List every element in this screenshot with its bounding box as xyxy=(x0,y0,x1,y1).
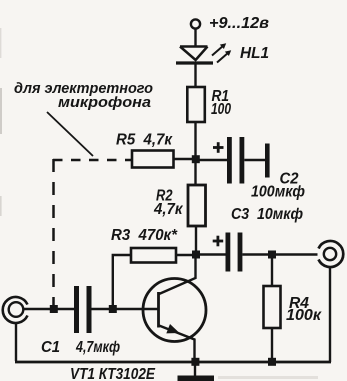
ground symbol xyxy=(194,362,196,376)
transistor VT1 emitter arrow xyxy=(166,324,179,333)
capacitor C2 xyxy=(227,137,232,184)
svg-text:4,7мкф: 4,7мкф xyxy=(75,339,120,356)
wire R3 to node B xyxy=(176,254,192,256)
svg-text:100к: 100к xyxy=(286,307,322,324)
dashed wire to electret mic (horizontal) xyxy=(53,159,132,162)
svg-text:100: 100 xyxy=(211,101,231,118)
wire C3 to output xyxy=(242,253,317,255)
capacitor C3 plus sign xyxy=(213,236,224,247)
svg-text:VT1 КТ3102Е: VT1 КТ3102Е xyxy=(70,366,156,381)
resistor R5 xyxy=(132,151,174,168)
transistor VT1 collector xyxy=(159,255,196,295)
svg-text:100мкф: 100мкф xyxy=(251,184,305,201)
svg-text:C1: C1 xyxy=(41,339,60,356)
svg-text:C3 10мкф: C3 10мкф xyxy=(231,206,303,223)
capacitor C3 xyxy=(226,233,231,272)
node emitter-rail junction xyxy=(191,358,199,366)
svg-text:HL1: HL1 xyxy=(240,45,269,62)
wire input to C1 xyxy=(23,308,74,310)
wire C1 to base xyxy=(92,308,159,310)
svg-text:R3 470к*: R3 470к* xyxy=(111,227,178,244)
node A junction xyxy=(192,155,200,163)
svg-text:4,7к: 4,7к xyxy=(153,201,184,218)
resistor R4 xyxy=(264,286,281,328)
wire node C to R4 xyxy=(271,255,273,286)
node dashed line junction xyxy=(50,305,58,313)
wire node A to C2 xyxy=(196,159,228,161)
callout line xyxy=(47,112,93,156)
output connector xyxy=(319,241,344,362)
svg-text:микрофона: микрофона xyxy=(58,94,151,111)
LED HL1 xyxy=(176,43,231,63)
transistor VT1 emitter xyxy=(159,326,195,363)
wire node B to C3 xyxy=(196,253,226,255)
wire R5 to node A xyxy=(174,158,193,160)
wire R4 to ground rail xyxy=(271,328,273,362)
node C junction (R4 top) xyxy=(268,251,276,259)
resistor R2 xyxy=(188,185,206,226)
capacitor C2 plus sign xyxy=(213,142,224,153)
resistor R3 xyxy=(131,248,176,263)
capacitor C1 xyxy=(74,286,79,333)
wire R1 to node A xyxy=(194,122,196,185)
scan artifact left edge xyxy=(0,88,2,134)
transistor VT1 circle xyxy=(143,279,206,342)
power terminal +9..12V xyxy=(191,19,200,28)
input connector xyxy=(3,297,28,361)
node R4-rail junction xyxy=(268,358,276,366)
wire C2 to end bar xyxy=(244,159,265,161)
wire LED to R1 xyxy=(194,63,196,87)
resistor R1 xyxy=(187,87,205,122)
svg-text:R5 4,7к: R5 4,7к xyxy=(116,132,173,149)
node base junction xyxy=(109,305,117,313)
ground rail xyxy=(15,361,331,364)
dashed wire to electret mic (vertical) xyxy=(52,159,55,305)
scan artifact bottom edge xyxy=(218,376,318,379)
wire R3 feedback to base xyxy=(113,255,131,309)
svg-text:+9...12в: +9...12в xyxy=(209,15,269,32)
C2 end terminal bar xyxy=(265,144,270,178)
transistor VT1 base bar xyxy=(157,292,160,328)
node B junction xyxy=(192,251,200,259)
wire power terminal to LED xyxy=(194,29,196,48)
wire R2 to node B xyxy=(195,226,197,258)
